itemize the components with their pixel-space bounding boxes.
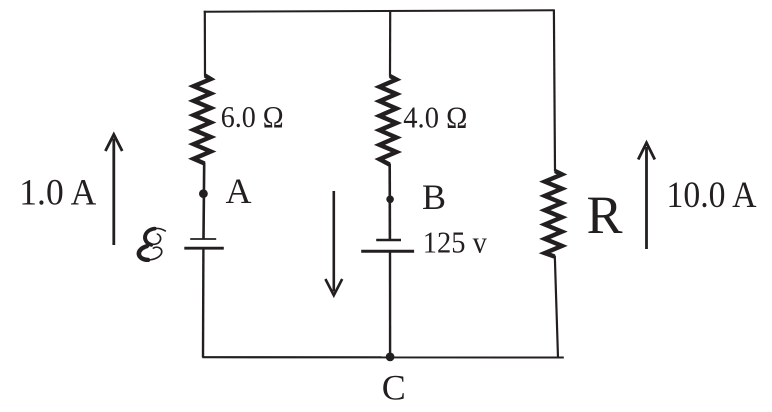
svg-text:125 v: 125 v <box>423 226 488 260</box>
wire middle branch upper <box>389 10 391 77</box>
node A junction dot <box>199 189 208 198</box>
wire middle battery to bottom <box>389 251 392 357</box>
svg-text:10.0 A: 10.0 A <box>667 174 758 215</box>
battery 125v bottom plate <box>361 250 414 253</box>
resistor R=6.0 ohm zigzag <box>194 76 211 164</box>
svg-text:R: R <box>587 185 623 245</box>
EMF script-E symbol <box>139 228 166 260</box>
battery EMF bottom plate <box>184 247 224 250</box>
wire bottom <box>202 356 564 358</box>
wire middle resistor to battery <box>388 164 391 240</box>
current arrow 10.0 A shaft <box>645 147 648 249</box>
battery EMF top plate <box>190 238 216 240</box>
svg-text:6.0 Ω: 6.0 Ω <box>221 99 284 134</box>
svg-text:1.0 A: 1.0 A <box>19 171 97 212</box>
wire right resistor to bottom <box>555 256 558 358</box>
battery 125v top plate <box>376 239 401 242</box>
current arrow middle down head <box>325 279 342 295</box>
node C junction dot <box>386 353 395 362</box>
current arrow 1.0 A head <box>105 135 122 152</box>
svg-text:C: C <box>382 368 406 408</box>
wire top <box>204 10 555 11</box>
current arrow 1.0 A shaft <box>112 139 115 246</box>
wire right branch upper <box>554 10 555 171</box>
current arrow 10.0 A head <box>638 143 655 160</box>
svg-text:B: B <box>422 177 446 217</box>
wire left battery to bottom <box>202 248 205 357</box>
svg-text:4.0 Ω: 4.0 Ω <box>403 100 467 135</box>
wire left branch upper <box>204 11 206 77</box>
svg-text:A: A <box>226 171 252 211</box>
resistor R zigzag <box>545 171 562 257</box>
node B junction dot <box>386 196 394 204</box>
wire left resistor to battery <box>202 163 205 239</box>
resistor R=4.0 ohm zigzag <box>380 76 397 165</box>
current arrow middle down shaft <box>332 191 335 292</box>
